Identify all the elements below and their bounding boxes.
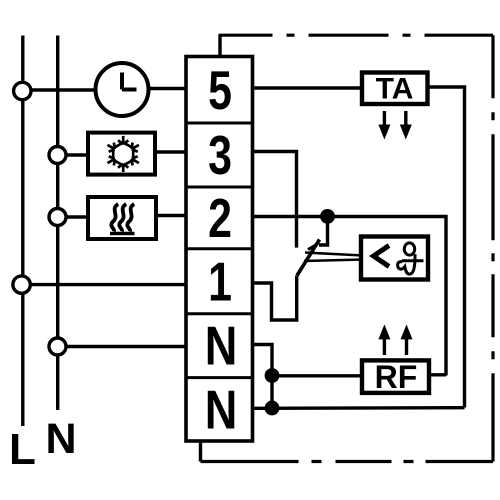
terminal divider 3/2	[186, 186, 253, 189]
device border right dash-dot	[491, 35, 494, 461]
switch blade	[297, 240, 320, 276]
mechanical link to sensor (upper)	[305, 253, 363, 256]
node circle on N (heating tap)	[49, 209, 66, 226]
wire N to terminal N	[65, 345, 187, 348]
junction dot on terminal 2 bus	[320, 209, 335, 224]
theta sensor glyph	[398, 243, 424, 274]
wire L to clock	[30, 88, 96, 91]
wire terminal N2 and bottom bus	[252, 406, 465, 410]
terminal divider N/N	[186, 376, 253, 379]
time switch clock face	[96, 63, 149, 116]
node circle on N (cooling tap)	[49, 147, 66, 164]
wire N to cooling unit	[65, 153, 89, 156]
svg-text:3: 3	[208, 125, 232, 186]
svg-text:5: 5	[208, 60, 232, 121]
wire L supply line	[21, 36, 24, 427]
node circle on N (terminal N tap)	[49, 338, 66, 355]
device border riser bottom	[199, 440, 202, 462]
wire N to heating unit	[65, 215, 89, 218]
wire TA to right bus	[428, 87, 465, 408]
svg-text:RF: RF	[375, 359, 418, 395]
wire N supply line	[56, 36, 59, 411]
mechanical link to sensor (lower)	[304, 260, 363, 262]
svg-text:N: N	[205, 378, 238, 440]
svg-text:L: L	[9, 425, 36, 474]
wire terminal 2 bus to sensor side	[252, 217, 446, 376]
RF up arrow 1	[378, 324, 390, 355]
svg-text:N: N	[205, 314, 238, 376]
device border top dash-dot	[219, 34, 494, 37]
terminal divider 5/3	[186, 122, 253, 125]
heating underline	[110, 232, 135, 235]
svg-text:N: N	[46, 415, 77, 463]
switch upper contact from junction	[319, 222, 328, 245]
node circle on L (terminal 1 tap)	[13, 276, 30, 293]
less-than symbol	[374, 246, 390, 267]
thermostat sensor box	[361, 237, 428, 280]
terminal divider 2/1	[186, 247, 253, 250]
node circle on L (clock tap)	[14, 82, 31, 99]
wire terminal 3 to switch contact	[252, 152, 297, 248]
wire terminal N to junction column	[252, 345, 272, 409]
TA down arrow 1	[378, 111, 390, 140]
junction dot at RF tap	[265, 368, 280, 383]
cooling unit box	[88, 133, 155, 175]
wire cooling unit to terminal 3	[154, 150, 187, 153]
clock hour hand	[120, 73, 124, 90]
svg-text:TA: TA	[376, 73, 414, 106]
TA box	[362, 73, 428, 105]
svg-text:1: 1	[208, 251, 232, 312]
wire terminal 5 to TA	[252, 86, 363, 89]
terminal block outline	[186, 57, 253, 442]
heating wavy lines symbol	[111, 204, 134, 232]
wire terminal 1 to switch pivot	[252, 276, 297, 321]
snowflake symbol	[108, 136, 139, 172]
wire RF to right bus	[429, 373, 447, 376]
RF box	[362, 360, 429, 393]
heating unit box	[88, 197, 156, 239]
wire junction to RF	[272, 374, 363, 377]
junction dot at bottom bus	[265, 401, 280, 416]
TA down arrow 2	[400, 111, 412, 140]
RF up arrow 2	[401, 324, 413, 355]
clock minute hand	[122, 88, 137, 92]
wire heating unit to terminal 2	[155, 214, 187, 217]
wire clock to terminal 5	[148, 87, 187, 90]
wire L to terminal 1	[29, 283, 187, 286]
device border bottom dash-dot	[201, 460, 494, 463]
device border riser top	[218, 35, 221, 57]
switch blade tick	[308, 244, 318, 250]
svg-text:2: 2	[208, 188, 232, 249]
terminal divider 1/N	[186, 312, 253, 315]
